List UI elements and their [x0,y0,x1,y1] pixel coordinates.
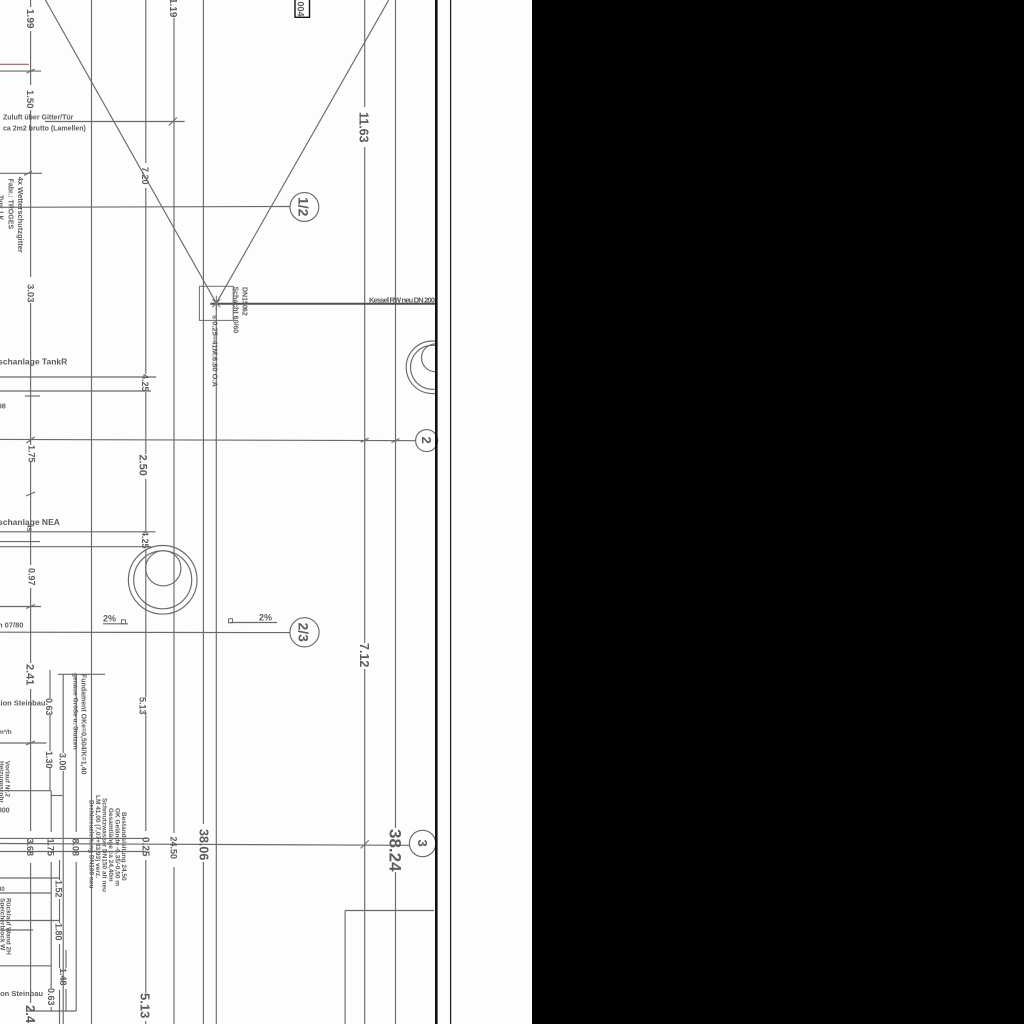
tank symbol clipped at frame [406,341,459,394]
svg-text:Bestandsleitung 24,50: Bestandsleitung 24,50 [120,812,127,881]
svg-text:1.19: 1.19 [167,0,178,18]
svg-text:ca 2m2 brutto (Lamellen): ca 2m2 brutto (Lamellen) [3,126,86,133]
svg-text:2.41: 2.41 [24,664,36,685]
svg-text:Typ: LK: Typ: LK [0,195,4,221]
svg-text:0.63: 0.63 [46,988,56,1006]
svg-text:80: 80 [0,887,5,893]
drawing frame thin border [450,0,452,1024]
svg-text:1/2: 1/2 [296,197,312,217]
connector y=674.3 [58,673,105,675]
svg-text:3.00: 3.00 [58,753,68,771]
dim line y=1011 [27,1010,76,1012]
ticks on chain x=30.6 [26,492,35,745]
chain x=76.2 [75,674,77,832]
datum lines y=839.5 / 847.9 [0,837,146,839]
wall line x=345.1 bottom step [344,911,346,1024]
dimension chain line x=30.6 [30,0,32,1003]
svg-text:s 0.25=41M.6.80 O.A: s 0.25=41M.6.80 O.A [211,315,220,388]
axis line y=207 to circle 1/2 [0,206,290,209]
svg-text:1.48: 1.48 [58,968,68,986]
svg-text:8.08: 8.08 [71,839,81,857]
long chainage line y=843 to circle 3 [0,844,409,846]
dim pair lines y=377/391 [0,376,156,378]
chain x=63.2 [62,674,64,753]
svg-text:1.80: 1.80 [54,923,64,941]
dim line y=743 [0,742,46,744]
svg-text:1.52: 1.52 [54,880,64,898]
svg-text:1.75: 1.75 [27,445,37,463]
svg-text:38.24: 38.24 [386,829,405,872]
axis bubble 3 [409,830,435,856]
pipe axis line x=216.3 below apex [215,303,217,1024]
svg-text:7.12: 7.12 [357,643,371,667]
svg-text:LM 41,00 (7,07+33,93) verz.: LM 41,00 (7,07+33,93) verz. [94,795,101,878]
chain x=66 [65,950,67,968]
axis bubble 2/3 [290,618,319,647]
dim line y=71 [0,70,41,72]
chain x=51.2 lower [50,791,52,832]
dimension chain line x=174 [173,18,175,1024]
axis line y=440 to circle 2 [0,439,416,440]
right diagonal pipe [216,0,388,303]
dim line y=878 [0,877,60,879]
svg-text:Rücklauf Wand 2H: Rücklauf Wand 2H [5,898,12,955]
step wall line y=910.5 [345,910,434,912]
svg-text:11.63: 11.63 [357,112,371,143]
grid line x=364.7 [364,0,366,1024]
dim line y=930 [0,929,33,931]
thick pipe line from apex to frame [210,303,436,305]
svg-text:2.41: 2.41 [23,1005,38,1024]
svg-text:800: 800 [0,808,10,815]
dim pair lines y=531.8/546.7 [0,531,155,533]
dim line y=893 [0,892,51,894]
axis bubble 2 [416,430,438,452]
building line x=91.5 [91,0,93,1024]
svg-text:schanlage TankR: schanlage TankR [0,357,67,367]
svg-text:2%: 2% [103,614,116,624]
dim line y=790.7 [0,790,51,792]
svg-text:m²/h: m²/h [0,729,12,736]
svg-text:Fundament OKe=0,504/K=1,40: Fundament OKe=0,504/K=1,40 [80,674,87,774]
drawing frame thick border [435,0,438,1024]
svg-text:4.25: 4.25 [140,374,150,392]
svg-text:1.50: 1.50 [24,90,35,109]
svg-text:Fabr.: TROGES: Fabr.: TROGES [7,179,14,230]
svg-text:OK Gelände -0,35/-0,50 m: OK Gelände -0,35/-0,50 m [114,808,121,886]
dim line y=173.3 [0,172,42,174]
grid line x=203.4 [202,0,204,1024]
chain x=50 [49,670,51,698]
svg-text:Drehkreuzleitung DN100 neu: Drehkreuzleitung DN100 neu [88,800,95,889]
dim line y=920.5 [0,920,60,922]
red marking line [0,63,29,65]
apex cross marker [212,296,220,311]
chain x=59.5 [59,860,61,880]
grid line x=395.5 [395,0,397,1024]
svg-text:62: 62 [241,308,248,316]
svg-text:Gesamtlänge ca 24,40m: Gesamtlänge ca 24,40m [107,808,114,882]
axis bubble 1/2 [290,193,319,222]
svg-text:24.50: 24.50 [169,837,179,860]
svg-text:Zuluft über Gitter/Tür: Zuluft über Gitter/Tür [3,115,74,122]
svg-text:1.75: 1.75 [46,839,56,857]
dimension chain line x=145.8 [145,0,147,1024]
svg-text:3.03: 3.03 [25,284,36,303]
svg-text:5.13: 5.13 [138,697,148,715]
svg-text:2.50: 2.50 [137,455,149,476]
svg-text:3: 3 [415,840,430,847]
axis line y=632 to circle 2/3 [0,631,290,633]
svg-text:7.20: 7.20 [140,167,150,185]
svg-text:0.63: 0.63 [44,698,54,716]
tank symbol double circle left [128,546,197,615]
dim line y=606.5 [0,606,41,608]
svg-text:2: 2 [419,437,434,444]
svg-text:Kessel RW neu DN 200: Kessel RW neu DN 200 [369,296,435,305]
dim line y=965.8 [0,965,51,967]
svg-text:45: 45 [25,524,32,532]
shaft box around apex [199,286,233,320]
svg-text:tion Steinbau: tion Steinbau [0,699,46,708]
svg-text:n 07/80: n 07/80 [0,621,23,630]
svg-text:1.30: 1.30 [44,751,54,769]
svg-text:genaue Größe u. Stutzen: genaue Größe u. Stutzen [72,673,79,750]
svg-text:2%: 2% [259,613,272,623]
svg-text:Schacht 60/60: Schacht 60/60 [232,287,239,334]
svg-text:38.06: 38.06 [197,829,211,860]
svg-text:Schmutzwasser DN150 alt neu: Schmutzwasser DN150 alt neu [101,798,108,892]
svg-text:4x Wetterschutzgitter: 4x Wetterschutzgitter [16,177,25,253]
svg-text:2/3: 2/3 [296,623,312,643]
svg-text:4.25: 4.25 [140,531,150,549]
svg-text:5.13: 5.13 [138,993,153,1018]
svg-text:DN150: DN150 [241,287,248,309]
svg-text:0.97: 0.97 [27,568,37,586]
svg-text:98: 98 [0,404,6,411]
svg-text:1.99: 1.99 [24,9,35,29]
svg-text:ion Steinbau: ion Steinbau [0,989,43,998]
svg-text:0.25: 0.25 [140,837,151,857]
svg-text:3.68: 3.68 [25,839,35,857]
svg-text:004: 004 [296,2,306,17]
black scan area right of paper edge [532,0,1024,1024]
dim line y=121.5 [45,121,185,123]
left diagonal pipe [45,0,216,303]
svg-text:Vorlauf Nr.2: Vorlauf Nr.2 [4,761,11,797]
